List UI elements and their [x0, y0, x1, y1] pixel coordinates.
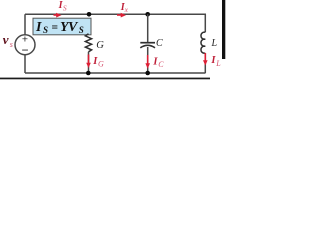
inductor L coil	[201, 32, 205, 53]
current arrow IL	[204, 53, 206, 61]
current arrow IG	[88, 55, 90, 64]
svg-text:G: G	[96, 40, 104, 51]
wire: left branch vertical (source leads)	[24, 14, 26, 73]
svg-text:S: S	[43, 25, 48, 35]
svg-text:L: L	[211, 38, 218, 49]
node: top junction at G branch	[87, 12, 92, 17]
svg-text:x: x	[124, 5, 129, 14]
capacitor C top plate	[140, 42, 155, 44]
wire: C branch lower lead	[147, 47, 149, 73]
highlight box IS = YVS	[33, 18, 91, 35]
conductance G (resistor zigzag)	[85, 34, 91, 52]
page edge bar (right margin fragment)	[222, 0, 225, 59]
svg-text:v: v	[3, 32, 9, 47]
svg-text:S: S	[79, 25, 84, 35]
node: bottom junction at G branch	[86, 71, 91, 76]
current arrow IS on top rail	[54, 14, 58, 16]
current arrow Ix on top rail	[117, 14, 122, 16]
voltage source VS circle	[15, 35, 35, 55]
node: bottom junction at C branch	[145, 71, 150, 76]
node: top junction at C branch	[145, 12, 150, 17]
wire: top rail from source to inductor branch	[25, 13, 206, 15]
wire: bottom rail	[25, 72, 206, 74]
wire: L branch upper lead	[204, 14, 206, 32]
wire: L branch lower lead	[204, 53, 206, 73]
svg-text:S: S	[63, 3, 67, 12]
wire: C branch upper lead	[147, 14, 149, 42]
svg-text:C: C	[158, 60, 164, 69]
svg-text:=: =	[52, 22, 59, 34]
current arrow IC	[147, 55, 149, 64]
wire: G branch lower lead	[88, 52, 90, 73]
svg-text:I: I	[35, 20, 42, 35]
svg-text:L: L	[215, 59, 221, 68]
svg-text:C: C	[156, 38, 163, 49]
svg-text:−: −	[21, 43, 28, 57]
page rule (separator line below figure)	[0, 78, 210, 80]
svg-text:G: G	[98, 59, 104, 68]
capacitor C curved bottom plate	[140, 45, 155, 47]
svg-text:s: s	[10, 40, 13, 49]
